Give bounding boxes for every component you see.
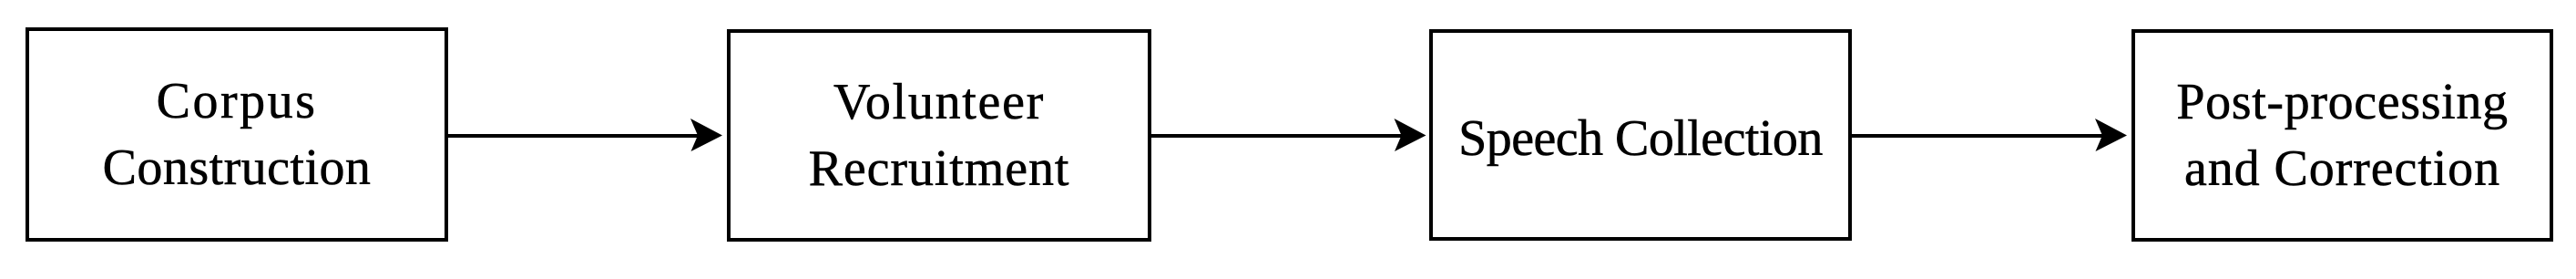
box: Speech Collection xyxy=(1429,29,1852,241)
wire: arrow 3 shaft xyxy=(1852,134,2106,138)
arrowhead 1 xyxy=(690,119,722,151)
box: Corpus Construction xyxy=(26,27,448,242)
wire: arrow 2 shaft xyxy=(1151,134,1405,138)
wire: arrow 1 shaft xyxy=(448,134,701,138)
arrowhead 2 xyxy=(1395,119,1426,151)
box: Post-processing and Correction xyxy=(2131,29,2553,242)
box: Volunteer Recruitment xyxy=(727,29,1151,242)
arrowhead 3 xyxy=(2095,119,2127,151)
